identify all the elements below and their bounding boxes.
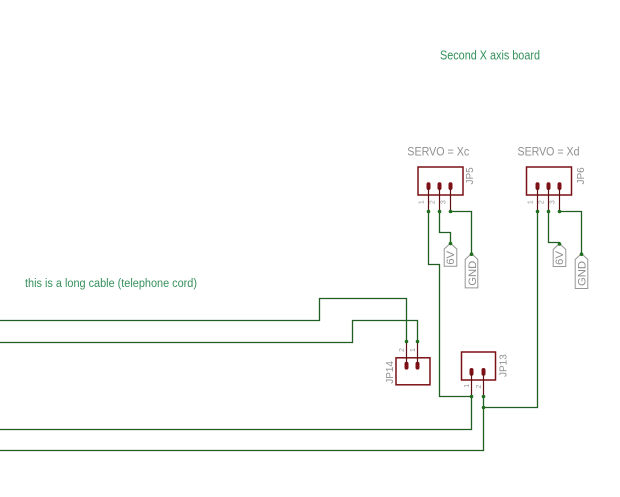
svg-text:this is a long cable (telephon: this is a long cable (telephone cord) (25, 278, 197, 290)
svg-text:1: 1 (419, 200, 426, 204)
junction dot JP14 pin 2 (405, 340, 409, 344)
svg-text:GND: GND (577, 261, 589, 286)
svg-text:JP13: JP13 (498, 354, 509, 377)
svg-text:2: 2 (430, 200, 437, 204)
junction dot JP6 pin 2 (547, 210, 551, 214)
supply pin dot 6V at JP5 (449, 242, 453, 246)
wire net from JP14 pin 2 to left edge (0, 299, 407, 342)
wire net node to bottom left edge (0, 408, 484, 451)
svg-text:Second X axis board: Second X axis board (440, 49, 540, 63)
wire node link to JP13 pin 2 (483, 397, 485, 408)
junction dot JP13 pin 1 (470, 395, 474, 399)
junction dot JP14 pin 1 (416, 340, 420, 344)
wire net JP5 pin 1 to JP13 pin 1 (429, 212, 472, 397)
svg-text:JP5: JP5 (465, 167, 476, 185)
junction dot JP5 pin 3 (449, 210, 453, 214)
wire net JP6 pin 3 to GND supply (560, 212, 582, 255)
svg-text:2: 2 (476, 384, 483, 388)
connector JP6 (527, 167, 572, 212)
junction dot JP6 pin 3 (558, 210, 562, 214)
svg-text:6V: 6V (445, 250, 457, 265)
junction dot JP6 pin 1 (536, 210, 540, 214)
svg-text:3: 3 (550, 200, 557, 204)
svg-text:SERVO = Xc: SERVO = Xc (407, 147, 469, 159)
wire net JP6 pin 2 to 6V supply (549, 212, 560, 245)
svg-text:6V: 6V (554, 250, 566, 265)
svg-text:SERVO = Xd: SERVO = Xd (518, 147, 580, 159)
junction dot JP13 pin 2 (482, 395, 486, 399)
svg-text:GND: GND (467, 261, 479, 286)
junction dot JP5 pin 1 (427, 210, 431, 214)
supply GND flag at JP6 (575, 254, 588, 289)
svg-text:JP6: JP6 (576, 167, 587, 185)
connector JP13 (462, 352, 496, 397)
supply GND flag at JP5 (465, 254, 479, 288)
svg-text:3: 3 (441, 200, 448, 204)
supply pin dot GND at JP6 (580, 252, 584, 256)
supply pin dot 6V at JP6 (558, 242, 562, 246)
wire net JP13 pin 1 to bottom left edge (0, 397, 472, 430)
junction dot JP5 pin 2 (438, 210, 442, 214)
supply 6V flag at JP6 (553, 244, 566, 267)
svg-text:2: 2 (399, 348, 406, 352)
supply 6V flag at JP5 (444, 243, 457, 266)
svg-text:1: 1 (410, 348, 417, 352)
wire net JP5 pin 3 to GND supply (451, 212, 472, 255)
connector JP14 (396, 342, 430, 385)
svg-text:1: 1 (464, 384, 471, 388)
wire net JP5 pin 2 to 6V supply (440, 212, 451, 244)
svg-text:JP14: JP14 (385, 361, 396, 384)
connector JP5 (418, 167, 463, 212)
supply pin dot GND at JP5 (470, 252, 474, 256)
wire net from JP14 pin 1 to left edge (0, 321, 418, 343)
svg-text:2: 2 (539, 200, 546, 204)
svg-text:1: 1 (528, 200, 535, 204)
junction dot node below JP13 (482, 406, 486, 410)
wire net JP6 pin 1 to node below JP13 (484, 212, 538, 408)
